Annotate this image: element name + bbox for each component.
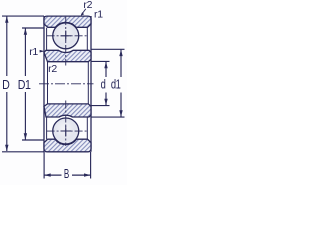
r1 mid leader arrow [40,50,45,53]
wire: bore chamfer edge right [87,62,89,104]
wire: bearing right face line [90,16,92,152]
outer ring top section [44,16,91,27]
node: main horizontal centerline (axis) [39,83,94,85]
node: top ball vertical centerline [65,17,67,66]
node: bottom ball horizontal centerline [47,130,88,132]
dimension D line [6,16,8,76]
wire: d bottom extension line [91,105,110,107]
wire: D top extension line [2,15,44,17]
dimension D1 line [24,28,26,76]
cage pocket left line (bottom) [46,117,48,139]
dimension d1 line [120,50,122,77]
wire: D1 top extension line [22,27,44,29]
ball top [53,23,79,49]
cage pocket right line (top) [86,28,88,50]
ball bottom [53,118,79,144]
svg-text:D: D [2,77,10,92]
cage pocket right line (bottom) [86,117,88,139]
svg-text:r2: r2 [83,0,92,11]
r2 top leader [82,9,86,15]
svg-text:r2: r2 [48,63,57,75]
node: top ball horizontal centerline [47,35,88,37]
wire: d1 bottom extension line [91,116,125,118]
inner ring bottom section [44,104,91,117]
svg-text:r1: r1 [94,8,103,20]
cage pocket left line (top) [46,28,48,50]
wire: B right extension line [90,152,92,179]
dimension d line [105,62,107,77]
svg-text:D1: D1 [18,77,32,92]
node: bottom ball center cross [61,130,72,132]
wire: d1 top extension line [91,48,125,50]
node: top ball center cross [61,35,72,37]
wire: D1 bottom extension line [22,139,44,141]
node: bottom ball vertical centerline [65,101,67,147]
wire: D bottom extension line [2,151,44,153]
wire: B left extension line [43,152,45,179]
wire: bearing left face line [43,16,45,152]
wire: bore chamfer edge left [47,62,49,104]
outer ring bottom section [44,139,91,152]
inner ring top section [44,50,91,61]
wire: d top extension line [91,60,110,62]
svg-text:B: B [64,167,69,181]
svg-text:d1: d1 [111,78,121,92]
svg-text:d: d [101,78,106,92]
svg-text:r1: r1 [29,46,38,58]
dimension B line [45,174,62,176]
